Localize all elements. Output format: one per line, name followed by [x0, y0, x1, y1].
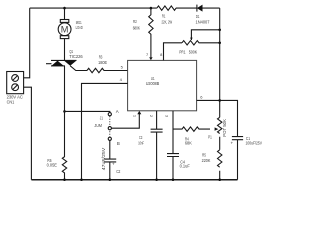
label MG1 LOAD — [76, 20, 83, 30]
svg-text:100uF/25V: 100uF/25V — [246, 141, 263, 146]
label J1 JUM A B — [94, 109, 120, 146]
node C3 bottom — [155, 178, 158, 181]
label R4 68K — [185, 136, 192, 145]
svg-text:POT 50K: POT 50K — [222, 119, 227, 137]
svg-text:U2008B: U2008B — [146, 81, 160, 86]
jumper J1 — [65, 111, 112, 140]
svg-text:U1: U1 — [151, 76, 155, 81]
resistor R6 — [62, 111, 66, 179]
svg-text:B: B — [117, 141, 120, 146]
svg-text:C3: C3 — [139, 135, 143, 140]
wire pin 3 node — [172, 111, 174, 154]
resistor R3 — [87, 68, 128, 72]
label Q1 TIC226 — [69, 49, 83, 59]
resistor R4 — [173, 127, 210, 131]
label C2 + 47uF/25V — [101, 148, 121, 174]
label PR1 500K — [179, 49, 197, 54]
IC U1 box — [128, 60, 197, 110]
label R5 220K — [202, 153, 211, 163]
wire pin 4 to bottom rail — [82, 83, 128, 179]
label R2 680K — [133, 19, 140, 30]
svg-text:D1: D1 — [196, 14, 200, 19]
wire triac to node — [64, 66, 66, 111]
node R6 bottom — [63, 178, 66, 181]
wire bottom rail — [31, 179, 237, 181]
wire neutral down from CN1 — [24, 87, 32, 180]
svg-text:8: 8 — [160, 52, 163, 57]
pin 1 arrow into U1 — [137, 111, 141, 114]
capacitor C4 — [167, 154, 179, 157]
diode D1 — [197, 5, 203, 12]
potentiometer PR1 — [182, 41, 220, 45]
svg-text:JUM: JUM — [94, 123, 102, 128]
svg-text:R3: R3 — [99, 54, 103, 59]
junction dot motor top — [63, 7, 66, 10]
svg-text:22K, 2W: 22K, 2W — [162, 19, 173, 24]
svg-text:1N4007: 1N4007 — [196, 20, 210, 25]
label P1 POT 50K — [208, 119, 227, 139]
svg-text:10nF: 10nF — [138, 141, 144, 146]
node triac/R6/J1 — [63, 110, 66, 113]
svg-text:6: 6 — [200, 94, 203, 99]
resistor R2 — [149, 8, 153, 57]
svg-text:47uF/25V: 47uF/25V — [101, 148, 106, 171]
svg-text:P1: P1 — [208, 134, 212, 139]
label C3 10nF — [138, 135, 144, 146]
wire pin 2 to C3 — [156, 111, 158, 129]
label C4 0.1uF — [180, 159, 190, 168]
svg-text:220K: 220K — [202, 158, 211, 163]
svg-text:0.05E: 0.05E — [47, 162, 57, 167]
svg-text:3: 3 — [164, 115, 169, 118]
label R1 22K, 2W — [162, 14, 173, 25]
svg-text:2: 2 — [149, 115, 154, 118]
label D1 1N4007 — [196, 14, 210, 24]
svg-text:500K: 500K — [189, 49, 197, 54]
PR1 wiper — [191, 30, 219, 40]
svg-text:R2: R2 — [133, 19, 137, 24]
svg-text:7: 7 — [146, 52, 149, 57]
svg-text:R1: R1 — [162, 14, 166, 19]
node pin4 bottom — [80, 178, 83, 181]
svg-text:0.1uF: 0.1uF — [180, 164, 190, 169]
svg-text:180E: 180E — [98, 60, 107, 65]
svg-text:680K: 680K — [133, 26, 140, 31]
svg-text:C2: C2 — [116, 169, 121, 174]
label C1 + 100uF/25V — [231, 136, 263, 146]
node C2 bottom — [109, 178, 112, 181]
pin 7 arrow into U1 — [149, 57, 152, 60]
resistor R1 — [157, 6, 176, 10]
potentiometer P1 — [218, 117, 222, 133]
svg-text:TIC226: TIC226 — [69, 54, 83, 59]
wire left rail — [24, 8, 30, 78]
svg-text:+: + — [231, 141, 234, 146]
node PR1 wiper/rail — [218, 29, 221, 32]
resistor R5 — [218, 150, 222, 167]
label R6 0.05E — [47, 158, 57, 168]
wire pin 8 to PR1 — [164, 43, 183, 61]
wire pin 6 to rail and C1 — [197, 100, 238, 136]
svg-text:CN1: CN1 — [7, 99, 15, 104]
svg-text:PR1: PR1 — [179, 49, 186, 54]
label U1 U2008B — [146, 76, 160, 86]
svg-text:+: + — [112, 161, 115, 166]
pin number labels — [120, 52, 204, 118]
triac Q1 — [46, 60, 87, 70]
label 230V AC CN1 — [7, 95, 23, 105]
wire J1 B to C2 — [109, 140, 111, 159]
svg-text:68K: 68K — [185, 140, 192, 145]
junction dot R2 top — [150, 7, 153, 10]
wire right rail — [219, 8, 221, 180]
svg-text:4: 4 — [120, 77, 123, 82]
node C4 bottom — [172, 178, 175, 181]
svg-text:A: A — [116, 109, 119, 114]
node pin6/rail — [218, 99, 221, 102]
R4 arrow to P1 wiper — [215, 127, 219, 130]
capacitor C1 — [232, 137, 243, 140]
svg-text:LOAD: LOAD — [76, 25, 83, 30]
svg-text:1: 1 — [132, 115, 137, 118]
wire J1 mid to pin 1 — [111, 114, 139, 129]
label R3 180E — [98, 54, 107, 65]
motor MG1 — [58, 8, 71, 60]
svg-text:5: 5 — [121, 65, 124, 70]
wire top rail — [30, 7, 220, 9]
svg-text:M: M — [61, 24, 69, 34]
svg-text:R5: R5 — [202, 153, 206, 158]
node R5 bottom — [218, 178, 221, 181]
capacitor C3 — [151, 129, 163, 132]
capacitor C2 — [104, 159, 116, 162]
svg-text:J1: J1 — [100, 115, 104, 120]
node PR1 end/rail — [218, 42, 221, 45]
terminal block CN1 — [7, 72, 24, 94]
